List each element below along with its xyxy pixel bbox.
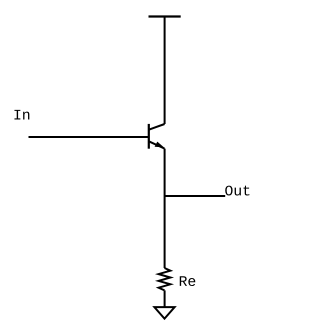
wire: resistor to ground xyxy=(164,290,166,307)
wire: supply to collector xyxy=(164,17,166,125)
transistor Q1 (NPN) xyxy=(149,124,165,149)
power supply rail symbol xyxy=(149,15,181,17)
wire: node to Out xyxy=(165,195,226,197)
wire: In to base xyxy=(29,136,149,138)
node In xyxy=(14,110,29,120)
wire: emitter down to resistor xyxy=(164,149,166,268)
ground xyxy=(154,307,174,319)
node Out xyxy=(225,186,249,196)
resistor Re xyxy=(159,268,171,290)
value label Re xyxy=(180,276,196,286)
